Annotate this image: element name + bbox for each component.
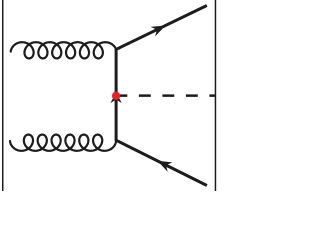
gluon g1 (incoming, top left) [11,42,116,58]
arrow on incoming antiquark (bottom diagonal, pointing up-left toward vertex) [157,161,172,172]
arrow on outgoing quark (top diagonal, pointing up-right) [151,25,166,36]
gluon g2 (incoming, bottom left) [10,135,116,151]
frame line right [214,0,216,191]
arrow on quark propagator (pointing up, under vertex dot) [110,92,121,103]
dashed scalar (Higgs) line from effective vertex to right [115,94,216,97]
frame line left [2,0,4,191]
quark line (outgoing top diagonal + vertical propagator + incoming bottom diagonal) [116,6,207,186]
effective vertex (red dot) [112,92,120,100]
